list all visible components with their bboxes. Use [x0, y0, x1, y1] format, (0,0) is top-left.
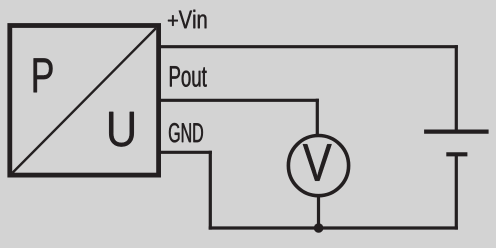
label GND [169, 123, 203, 142]
wire from voltmeter bottom to ground bus [317, 197, 320, 228]
wire Pout horizontal from box [159, 99, 319, 102]
wire +Vin vertical down to battery positive plate [455, 45, 458, 130]
diagonal divider of transducer box [12, 28, 156, 173]
pressure-to-voltage transducer box [10, 26, 159, 176]
wire bottom horizontal (ground bus) [209, 226, 458, 229]
voltmeter V1 circle [288, 136, 348, 196]
wire Pout vertical down to voltmeter [316, 99, 319, 135]
label U (voltage output) [109, 112, 134, 147]
battery BT1 negative plate (short) [446, 152, 467, 156]
voltmeter letter V [303, 144, 332, 181]
wire +Vin horizontal from box to battery column [159, 45, 458, 48]
battery BT1 positive plate (long) [424, 130, 489, 134]
wire from battery negative plate down [455, 154, 458, 229]
label P (pressure input) [34, 58, 53, 92]
label +Vin [168, 10, 206, 29]
wire GND vertical down to ground bus [209, 151, 212, 230]
junction dot at voltmeter/ground bus [314, 223, 324, 233]
label Pout [170, 66, 207, 87]
wire GND horizontal from box [159, 151, 212, 154]
